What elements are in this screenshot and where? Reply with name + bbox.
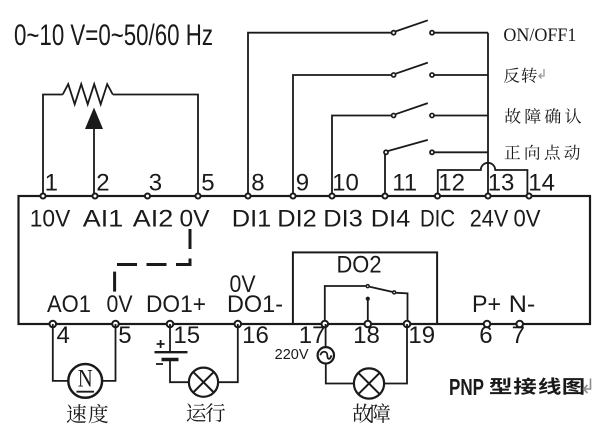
wire DI1 (ON/OFF1) to common 24V rail: [434, 32, 488, 34]
wire terminal 4 to speed meter: [53, 324, 69, 381]
caption PNP wiring diagram: [449, 374, 584, 400]
wire DI3 (fault ack) to common 24V rail: [434, 115, 488, 117]
terminal 12 (top): [435, 193, 440, 198]
inverter body outline: [19, 196, 591, 324]
wire battery to run lamp: [170, 360, 189, 383]
potentiometer wiper arrow to terminal 2: [85, 108, 103, 197]
svg-text:PNP: PNP: [449, 374, 484, 400]
wire fault lamp to terminal 19: [384, 324, 407, 384]
svg-text:0~10 V=0~50/60 Hz: 0~10 V=0~50/60 Hz: [14, 19, 213, 52]
svg-text:18: 18: [353, 322, 380, 349]
svg-text:DI4: DI4: [371, 206, 411, 233]
svg-text:DIC: DIC: [420, 206, 455, 233]
label yunxing (run): [187, 403, 206, 421]
svg-text:24V: 24V: [470, 206, 509, 233]
jumper wire DIC(12) to 0V(14) hopping over 24V(13): [438, 163, 528, 196]
relay DO2 wiring from terminal 17: [325, 286, 366, 324]
svg-text:1: 1: [45, 170, 58, 197]
wire DI2 (reverse) to common 24V rail: [434, 74, 488, 76]
terminal 9 (top): [290, 193, 295, 198]
svg-text:16: 16: [242, 322, 269, 349]
wire relay contact to terminal 19: [396, 293, 407, 324]
wire pot right leg to terminal 5: [113, 95, 198, 197]
svg-text:DI1: DI1: [232, 206, 272, 233]
terminal 4 (bottom): [50, 321, 57, 328]
terminal 16 (bottom): [235, 321, 242, 328]
dashed link top 0V to bottom 0V: [115, 229, 190, 292]
svg-text:6: 6: [479, 322, 492, 349]
svg-text:N-: N-: [509, 291, 536, 318]
wire pot left leg to terminal 1: [43, 95, 63, 197]
battery positive plate: [155, 351, 188, 353]
return mark after caption: [584, 379, 591, 394]
svg-text:P+: P+: [472, 291, 501, 318]
relay contact pivot circle: [366, 285, 369, 288]
svg-text:0V: 0V: [107, 291, 133, 318]
wire DI1 (ON/OFF1) terminal riser: [248, 33, 392, 196]
return mark after reverse label: [539, 69, 544, 79]
svg-text:9: 9: [296, 170, 309, 197]
svg-text:220V: 220V: [275, 347, 309, 363]
relay moving arm: [370, 287, 393, 292]
svg-text:DO2: DO2: [337, 252, 382, 279]
svg-text:AO1: AO1: [47, 291, 91, 318]
wire relay common to terminal 18: [367, 299, 369, 324]
label fan-zhuan (reverse): [504, 68, 520, 83]
svg-text:4: 4: [57, 322, 70, 349]
svg-text:19: 19: [408, 322, 435, 349]
svg-text:AI2: AI2: [133, 206, 174, 233]
wire DI4 (fwd jog) terminal riser: [384, 152, 385, 196]
wire terminal 17 down to AC source: [325, 324, 327, 347]
svg-text:11: 11: [392, 170, 417, 197]
svg-text:14: 14: [528, 170, 555, 197]
battery negative plate: [162, 358, 179, 361]
svg-text:ON/OFF1: ON/OFF1: [503, 25, 576, 46]
speed meter (N): [68, 364, 102, 398]
fault lamp: [354, 368, 384, 398]
terminal 1 (top): [40, 193, 45, 198]
label zhengxiang-diandong (forward jog): [505, 145, 520, 159]
switch DI2 (reverse) contact: [392, 63, 435, 77]
svg-text:10: 10: [332, 170, 359, 197]
terminal 18 (bottom): [365, 321, 372, 328]
terminal 14 (top): [526, 193, 531, 198]
svg-text:DO1+: DO1+: [146, 291, 206, 318]
DO2 relay box: [293, 252, 437, 324]
svg-text:12: 12: [438, 170, 465, 197]
terminal 7 (bottom): [516, 321, 523, 328]
potentiometer RP resistor zigzag: [63, 84, 113, 104]
battery minus sign: [156, 363, 163, 365]
wire terminal 5 to speed meter: [102, 324, 115, 381]
terminal 2 (top): [92, 193, 97, 198]
switch DI3 (fault ack) contact: [392, 103, 435, 117]
label sudu (speed): [67, 404, 86, 423]
label guzhang (fault): [353, 404, 373, 423]
run lamp: [189, 368, 218, 397]
svg-text:3: 3: [149, 170, 162, 197]
relay common dot: [366, 297, 370, 301]
terminal 8 (top): [245, 193, 250, 198]
svg-text:0V: 0V: [514, 206, 541, 233]
svg-text:AI1: AI1: [83, 206, 124, 233]
terminal 5 (bottom): [112, 321, 119, 328]
wire DI3 (fault ack) terminal riser: [332, 116, 392, 197]
svg-text:DO1-: DO1-: [227, 291, 283, 318]
terminal 3 (top): [145, 193, 150, 198]
wire run lamp to terminal 16: [218, 324, 238, 382]
svg-text:0V: 0V: [180, 206, 210, 233]
wire AC source to fault lamp: [326, 364, 354, 384]
terminal 15 (bottom): [167, 321, 174, 328]
svg-text:7: 7: [512, 322, 525, 349]
svg-text:13: 13: [488, 170, 515, 197]
svg-text:10V: 10V: [30, 206, 71, 233]
svg-text:8: 8: [251, 170, 264, 197]
AC source symbol: [318, 347, 334, 363]
svg-text:DI3: DI3: [323, 206, 363, 233]
terminal 11 (top): [382, 193, 387, 198]
wire terminal 15 to battery: [169, 324, 171, 351]
wire DI2 (reverse) terminal riser: [293, 75, 392, 196]
switch DI1 (ON/OFF1) contact: [392, 20, 435, 34]
switch DI4 (fwd jog) contact: [384, 140, 434, 154]
wire common switch rail down to terminal 13: [487, 33, 489, 196]
terminal 10 (top): [329, 193, 334, 198]
svg-text:15: 15: [173, 322, 200, 349]
label guzhang-queren (fault acknowledge): [505, 108, 521, 124]
terminal 5 (top): [195, 193, 200, 198]
terminal 6 (bottom): [484, 321, 491, 328]
terminal 17 (bottom): [322, 321, 329, 328]
svg-text:N: N: [78, 365, 93, 392]
terminal 19 (bottom): [404, 321, 411, 328]
wire DI4 (fwd jog) to common 24V rail: [434, 151, 488, 153]
svg-text:DI2: DI2: [277, 206, 317, 233]
svg-text:2: 2: [96, 170, 109, 197]
battery plus sign: [157, 340, 165, 348]
svg-text:17: 17: [299, 322, 326, 349]
svg-text:5: 5: [118, 322, 131, 349]
terminal 13 (top): [485, 193, 490, 198]
relay contact circle (to 19): [393, 291, 396, 294]
svg-text:5: 5: [201, 170, 214, 197]
